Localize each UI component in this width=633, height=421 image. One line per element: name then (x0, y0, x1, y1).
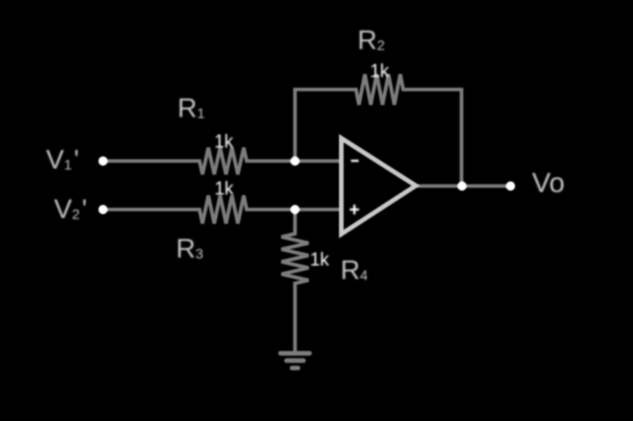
svg-text:Vo: Vo (532, 167, 565, 198)
svg-text:V2': V2' (54, 194, 87, 224)
node V1 input terminal (98, 156, 107, 165)
op-amp minus input mark (351, 160, 359, 162)
node non-inverting input junction (290, 205, 299, 214)
wire V2' input with resistor R3 (1k) (103, 196, 341, 224)
ground (281, 353, 310, 368)
node V2 input terminal (98, 205, 107, 214)
wire V1' input with resistor R1 (1k) (103, 148, 341, 175)
node inverting input junction (290, 156, 299, 165)
node output junction (457, 181, 466, 190)
wire feedback loop with resistor R2 (1k) (295, 74, 462, 186)
svg-text:1k: 1k (370, 61, 390, 81)
svg-text:1k: 1k (214, 178, 234, 198)
op-amp plus input mark (350, 205, 359, 215)
wire to ground with resistor R4 (1k) (282, 210, 309, 353)
node Vo terminal (506, 181, 515, 190)
svg-text:V1': V1' (46, 145, 79, 175)
op-amp U1 (341, 138, 416, 234)
wire output (416, 184, 510, 188)
svg-text:1k: 1k (310, 249, 330, 269)
svg-text:1k: 1k (214, 131, 234, 151)
